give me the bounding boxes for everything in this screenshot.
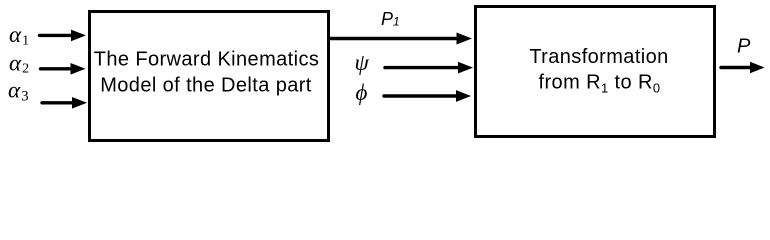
arrow phi — [384, 90, 471, 102]
svg-text:P: P — [737, 35, 751, 57]
block: The Forward Kinematics Model of the Delta part — [90, 12, 329, 141]
arrow alpha1 — [40, 30, 87, 42]
svg-text:Transformation: Transformation — [529, 46, 668, 68]
svg-text:The Forward Kinematics: The Forward Kinematics — [94, 48, 320, 70]
arrow psi — [385, 62, 473, 74]
block: Transformation from R1 to R0 — [476, 7, 715, 137]
svg-text:from R1 to R0: from R1 to R0 — [539, 71, 661, 95]
svg-text:Model of the Delta part: Model of the Delta part — [100, 75, 312, 97]
arrow P output — [721, 62, 765, 74]
arrow P1 — [330, 33, 472, 45]
svg-text:ψ: ψ — [355, 50, 370, 75]
arrow alpha3 — [42, 97, 87, 109]
svg-text:ϕ: ϕ — [356, 80, 368, 105]
arrow alpha2 — [41, 63, 86, 75]
